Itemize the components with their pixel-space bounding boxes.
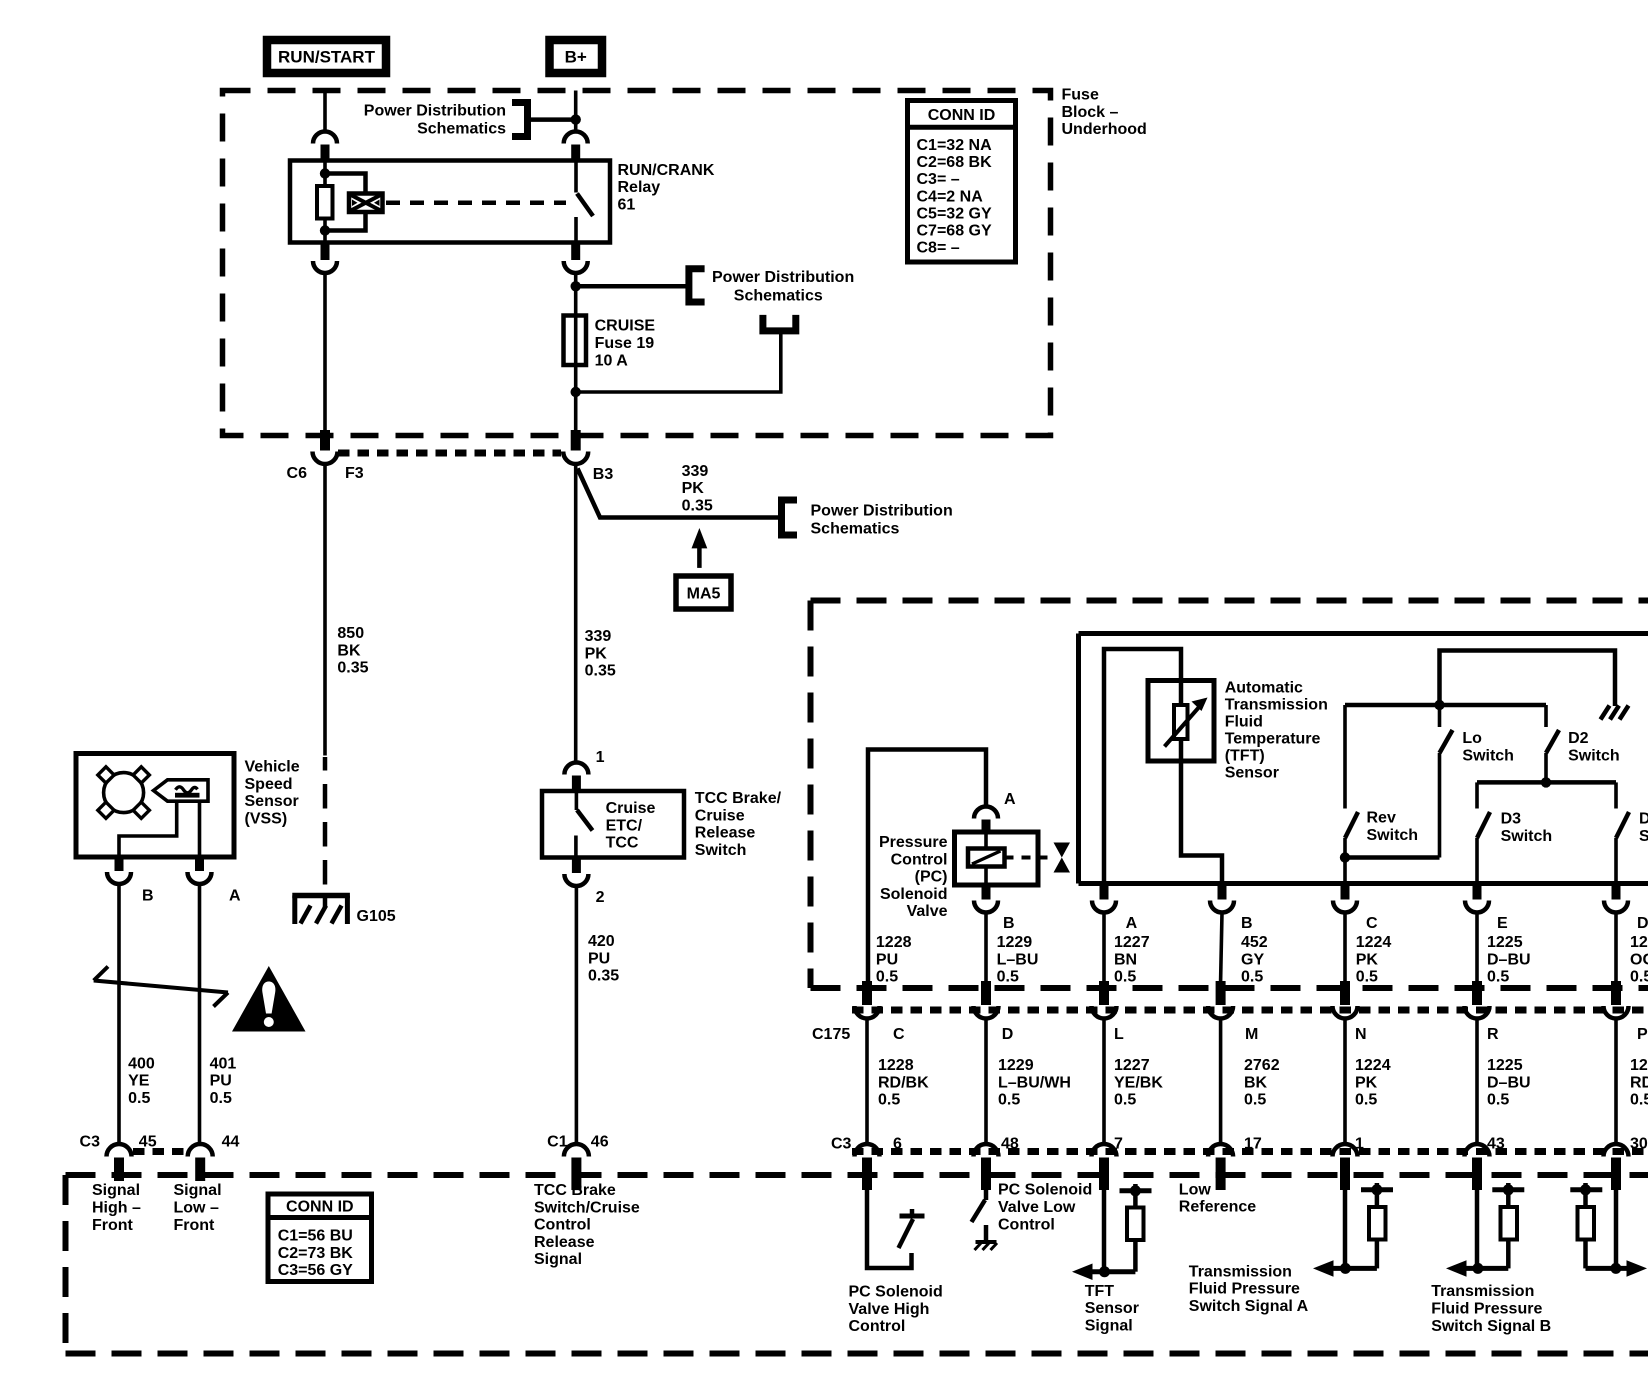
VSS pickup pointer icon — [154, 780, 209, 801]
label Power Distribution Schematics (B3 tap) — [811, 502, 953, 537]
svg-text:(VSS): (VSS) — [245, 811, 288, 828]
D4 switch — [1616, 782, 1629, 883]
svg-text:0.5: 0.5 — [1114, 1092, 1136, 1109]
Rev switch — [1345, 705, 1358, 884]
label PC Solenoid Valve Low Control — [998, 1182, 1092, 1234]
warning triangle — [232, 966, 306, 1032]
wire 1226 OG — [1614, 913, 1618, 981]
bracket power distribution (U return) — [763, 315, 796, 331]
relay coil branch lower node — [320, 225, 330, 235]
dotted connector line C175 top — [852, 1007, 1648, 1014]
wire 1224 PK — [1343, 913, 1347, 981]
C175 column P — [1604, 981, 1629, 1190]
svg-text:0.5: 0.5 — [1241, 969, 1263, 986]
svg-text:339: 339 — [682, 463, 709, 480]
svg-text:B+: B+ — [565, 48, 587, 67]
svg-text:0.5: 0.5 — [1244, 1092, 1266, 1109]
svg-text:PU: PU — [876, 951, 898, 968]
wire 400 YE — [117, 885, 121, 1145]
svg-text:30: 30 — [1630, 1136, 1648, 1153]
wire B+ feed — [574, 91, 578, 132]
connector cup trans pin A — [1092, 901, 1116, 913]
node ground rail junction — [1434, 700, 1444, 710]
svg-text:Front: Front — [92, 1217, 134, 1234]
svg-text:Sensor: Sensor — [1225, 764, 1279, 781]
wire 401 PU — [198, 885, 202, 1145]
label Pressure Control (PC) Solenoid Valve — [879, 834, 948, 920]
svg-text:Power Distribution: Power Distribution — [364, 102, 506, 119]
svg-text:2: 2 — [596, 889, 605, 906]
svg-text:Fluid Pressure: Fluid Pressure — [1431, 1301, 1542, 1318]
svg-text:TCC Brake/: TCC Brake/ — [695, 790, 782, 807]
dotted connector line C175 bottom — [852, 1148, 1648, 1155]
svg-text:L–BU/WH: L–BU/WH — [998, 1074, 1071, 1091]
D3 switch — [1477, 782, 1490, 883]
svg-text:GY: GY — [1241, 951, 1264, 968]
svg-text:46: 46 — [591, 1134, 609, 1151]
svg-text:1224: 1224 — [1356, 934, 1392, 951]
label 1226 OG 0.5 — [1630, 934, 1648, 986]
pin stub C3 pin 44 — [195, 1158, 205, 1182]
relay coil branch upper node — [320, 168, 330, 178]
VSS internal wire B — [119, 801, 177, 857]
svg-text:Signal: Signal — [1085, 1317, 1133, 1334]
svg-text:Low: Low — [1179, 1181, 1212, 1198]
svg-text:400: 400 — [128, 1055, 155, 1072]
pin stub trans pin B — [1218, 884, 1227, 900]
svg-text:TCC: TCC — [606, 835, 639, 852]
dotted connector line C6-B3 — [338, 450, 561, 457]
svg-text:PK: PK — [1355, 1074, 1378, 1091]
node below fuse junction — [571, 387, 581, 397]
svg-text:0.5: 0.5 — [1114, 969, 1136, 986]
pin stub VSS pin A — [195, 857, 204, 871]
svg-text:Valve: Valve — [907, 903, 948, 920]
label 1227 BN 0.5 — [1114, 934, 1150, 986]
svg-text:Speed: Speed — [245, 776, 293, 793]
svg-text:D: D — [1637, 915, 1648, 932]
svg-text:Switch: Switch — [1639, 828, 1648, 845]
svg-text:PU: PU — [210, 1073, 232, 1090]
TFP switch signal C input network (clipped) — [1570, 1183, 1647, 1277]
wire relay right output — [574, 274, 578, 432]
C175 column N — [1333, 981, 1358, 1190]
svg-text:0.5: 0.5 — [1630, 1092, 1648, 1109]
svg-text:44: 44 — [222, 1134, 240, 1151]
C175 column M — [1208, 981, 1233, 1190]
label 339 PK 0.35 (branch) — [682, 463, 713, 515]
label TCC Brake Switch/Cruise Control Release Signal — [534, 1182, 640, 1268]
connector cup trans pin E — [1465, 901, 1489, 913]
wire TFT sensor output — [1181, 739, 1222, 884]
svg-text:Automatic: Automatic — [1225, 680, 1303, 697]
svg-text:1228: 1228 — [876, 934, 912, 951]
svg-text:A: A — [229, 888, 241, 905]
svg-text:L: L — [1114, 1026, 1124, 1043]
svg-text:B3: B3 — [593, 466, 614, 483]
svg-text:D–BU: D–BU — [1487, 1074, 1531, 1091]
cruise switch lower contact — [574, 836, 578, 858]
svg-text:Fuse: Fuse — [1062, 87, 1099, 104]
connector cup C1 pin 46 — [564, 1144, 589, 1157]
svg-text:D2: D2 — [1568, 730, 1589, 747]
cruise switch fixed contact — [575, 791, 579, 810]
pin stub into relay (RUN/START side) — [321, 145, 330, 161]
power node B+ — [550, 40, 603, 73]
TFP switch signal A input network — [1313, 1183, 1393, 1277]
connector cup VSS pin B — [107, 872, 131, 884]
svg-text:(TFT): (TFT) — [1225, 747, 1265, 764]
svg-text:Low –: Low – — [174, 1200, 219, 1217]
wire switch top bus — [1345, 703, 1546, 708]
svg-text:C2=73 BK: C2=73 BK — [278, 1245, 354, 1262]
label Signal High - Front — [92, 1182, 141, 1234]
PC solenoid low control switch to ground — [972, 1190, 998, 1250]
cruise switch blade — [577, 810, 593, 831]
label Lo Switch — [1462, 730, 1514, 764]
svg-text:1227: 1227 — [1114, 934, 1150, 951]
svg-text:17: 17 — [1244, 1136, 1262, 1153]
pin stub trans pin E — [1473, 884, 1482, 900]
C175 column C — [855, 981, 880, 1190]
wire 1227 BN — [1102, 913, 1106, 981]
label 452 GY 0.5 — [1241, 934, 1268, 986]
table CONN ID (module) — [266, 1194, 372, 1282]
connector cup relay pin (RUN/START side) — [313, 132, 337, 144]
sensor box TFT — [1148, 681, 1214, 762]
label 1228 PU 0.5 — [876, 934, 912, 986]
wire tap to power distribution bracket — [528, 117, 576, 122]
sensor box VSS — [76, 754, 234, 858]
label CRUISE Fuse 19 10 A — [595, 318, 656, 370]
label TFT Sensor Signal — [1085, 1283, 1139, 1335]
wire tap to power distribution bracket (mid) — [576, 284, 689, 289]
svg-text:0.5: 0.5 — [1487, 969, 1509, 986]
connector cup trans pin B — [1210, 901, 1234, 913]
svg-text:RUN/START: RUN/START — [278, 48, 376, 67]
svg-text:C1=32 NA: C1=32 NA — [917, 137, 993, 154]
wire TFT bridge — [1104, 649, 1181, 884]
relay coil wire — [323, 161, 327, 243]
label Power Distribution Schematics (top) — [364, 102, 506, 137]
label D4 Switch — [1639, 811, 1648, 845]
svg-text:45: 45 — [139, 1134, 157, 1151]
svg-text:Pressure: Pressure — [879, 834, 948, 851]
svg-text:C3= –: C3= – — [917, 171, 960, 188]
svg-text:PC Solenoid: PC Solenoid — [849, 1284, 943, 1301]
svg-text:Switch Signal B: Switch Signal B — [1431, 1318, 1551, 1335]
svg-text:0.5: 0.5 — [998, 1092, 1020, 1109]
label 850 BK 0.35 — [337, 625, 368, 677]
svg-text:Relay: Relay — [618, 179, 661, 196]
svg-text:Control: Control — [849, 1318, 906, 1335]
svg-text:Signal: Signal — [534, 1251, 582, 1268]
pin stub through fuse block exit (B3) — [571, 430, 581, 451]
module dashed boundary (bottom) — [66, 1175, 1648, 1354]
pin stub below relay (left) — [321, 243, 330, 261]
label Fuse Block - Underhood — [1062, 87, 1147, 139]
svg-text:Signal: Signal — [174, 1182, 222, 1199]
PC solenoid element — [968, 849, 1005, 867]
wire 339 PK vertical run — [574, 464, 578, 762]
svg-text:Release: Release — [695, 825, 756, 842]
PC solenoid high control driver switch — [867, 1190, 925, 1268]
wire 850 BK dashed run to ground — [323, 757, 328, 893]
svg-text:0.35: 0.35 — [682, 497, 713, 514]
svg-text:C175: C175 — [812, 1026, 850, 1043]
svg-text:C6: C6 — [287, 465, 308, 482]
label Transmission Fluid Pressure Switch Signal A — [1189, 1263, 1309, 1315]
wire 452 GY — [1221, 913, 1222, 981]
label PC Solenoid Valve High Control — [849, 1284, 943, 1336]
PC solenoid wire through — [984, 832, 988, 885]
wire PC solenoid high feed — [868, 750, 986, 982]
connector cup C3 pin 44 — [188, 1144, 213, 1156]
connector cup cruise switch pin 2 — [564, 874, 588, 886]
wire 339 PK branch diagonal — [578, 469, 782, 518]
dashed valve linkage — [1005, 856, 1050, 860]
svg-text:0.5: 0.5 — [1487, 1092, 1509, 1109]
svg-text:Cruise: Cruise — [695, 807, 745, 824]
svg-text:YE: YE — [128, 1073, 150, 1090]
svg-text:CONN ID: CONN ID — [286, 1199, 354, 1216]
label 1226 RD/BK 0.5 — [1630, 1057, 1648, 1109]
connector cup PC solenoid pin A — [974, 807, 998, 819]
svg-text:0.35: 0.35 — [585, 663, 616, 680]
svg-text:BK: BK — [1244, 1074, 1268, 1091]
svg-text:0.5: 0.5 — [1356, 969, 1378, 986]
svg-text:Release: Release — [534, 1234, 595, 1251]
svg-text:Signal: Signal — [92, 1182, 140, 1199]
TFT sensor signal input network — [1072, 1184, 1152, 1280]
svg-text:PK: PK — [682, 480, 705, 497]
table CONN ID (fuse block) — [905, 101, 1018, 263]
svg-text:Solenoid: Solenoid — [880, 886, 948, 903]
svg-text:BN: BN — [1114, 951, 1137, 968]
relay coil element — [317, 186, 333, 219]
svg-text:D3: D3 — [1501, 811, 1522, 828]
svg-text:48: 48 — [1001, 1136, 1019, 1153]
label 2762 BK 0.5 — [1244, 1057, 1280, 1109]
svg-text:C5=32 GY: C5=32 GY — [917, 206, 992, 223]
pin stub trans pin A — [1100, 884, 1109, 900]
svg-text:Switch Signal A: Switch Signal A — [1189, 1298, 1309, 1315]
D2 switch — [1546, 705, 1559, 782]
svg-text:Control: Control — [998, 1216, 1055, 1233]
pin stub C1 pin 46 — [571, 1158, 581, 1191]
pin stub VSS pin B — [115, 857, 124, 871]
svg-text:C3: C3 — [831, 1136, 852, 1153]
fuse CRUISE Fuse 19 10A — [564, 316, 587, 366]
svg-text:B: B — [142, 888, 154, 905]
svg-text:C7=68 GY: C7=68 GY — [917, 223, 992, 240]
svg-text:7: 7 — [1114, 1136, 1123, 1153]
node Rev lower junction — [1340, 852, 1350, 862]
svg-text:Temperature: Temperature — [1225, 730, 1321, 747]
connector cup C3 pin 45 — [106, 1144, 131, 1157]
resistor TFT thermistor — [1174, 705, 1188, 739]
svg-text:D4: D4 — [1639, 811, 1648, 828]
svg-text:L–BU: L–BU — [997, 951, 1039, 968]
solenoid valve box PC — [955, 832, 1039, 885]
label TCC Brake/Cruise Release Switch — [695, 790, 782, 859]
wire 850 BK upper run — [323, 464, 327, 756]
label 1225 D-BU 0.5 — [1487, 934, 1531, 986]
svg-text:1226: 1226 — [1630, 1057, 1648, 1074]
svg-text:C2=68 BK: C2=68 BK — [917, 154, 993, 171]
label 1227 YE/BK 0.5 — [1114, 1057, 1163, 1109]
svg-text:N: N — [1355, 1026, 1367, 1043]
svg-text:6: 6 — [893, 1136, 902, 1153]
label 420 PU 0.35 — [588, 933, 619, 985]
svg-text:2762: 2762 — [1244, 1057, 1280, 1074]
C175 column L — [1092, 981, 1117, 1190]
svg-text:PC Solenoid: PC Solenoid — [998, 1182, 1092, 1199]
svg-text:1228: 1228 — [878, 1057, 914, 1074]
label 339 PK 0.35 (vertical) — [585, 628, 616, 680]
label Power Distribution Schematics (mid) — [712, 269, 854, 304]
svg-text:M: M — [1245, 1026, 1258, 1043]
svg-text:B: B — [1241, 915, 1253, 932]
svg-text:Fluid Pressure: Fluid Pressure — [1189, 1281, 1300, 1298]
svg-text:0.5: 0.5 — [876, 969, 898, 986]
label Signal Low - Front — [174, 1182, 222, 1234]
connector cup trans pin C — [1333, 901, 1357, 913]
svg-text:PK: PK — [585, 645, 608, 662]
C175 column R — [1465, 981, 1490, 1190]
svg-text:Schematics: Schematics — [734, 287, 823, 304]
pin stub trans pin C — [1341, 884, 1350, 900]
label 1229 L-BU/WH 0.5 — [998, 1057, 1071, 1109]
svg-text:Vehicle: Vehicle — [245, 759, 300, 776]
svg-text:0.35: 0.35 — [588, 968, 619, 985]
wire 1225 D-BU — [1475, 913, 1479, 981]
svg-text:1: 1 — [1355, 1136, 1364, 1153]
pin stub PC solenoid pin A — [982, 820, 991, 833]
arrow MA5 reference — [692, 528, 708, 568]
svg-text:0.5: 0.5 — [128, 1090, 150, 1107]
svg-text:(PC): (PC) — [915, 869, 948, 886]
connector cup below relay (left) — [313, 261, 337, 273]
label D2 Switch — [1568, 730, 1620, 764]
TFP switch signal B input network — [1446, 1183, 1524, 1277]
label Low Reference — [1179, 1181, 1256, 1215]
svg-text:Cruise: Cruise — [606, 800, 656, 817]
connector cup trans pin D — [1604, 901, 1628, 913]
svg-text:0.5: 0.5 — [1630, 969, 1648, 986]
svg-text:Transmission: Transmission — [1189, 1263, 1292, 1280]
node fused feed junction — [571, 281, 581, 291]
svg-text:YE/BK: YE/BK — [1114, 1074, 1163, 1091]
relay switch fixed contact — [574, 161, 578, 193]
svg-text:1226: 1226 — [1630, 934, 1648, 951]
svg-text:C8= –: C8= – — [917, 240, 960, 257]
svg-text:E: E — [1497, 915, 1508, 932]
svg-text:Fluid: Fluid — [1225, 713, 1263, 730]
svg-text:Transmission: Transmission — [1431, 1283, 1534, 1300]
svg-text:Schematics: Schematics — [811, 521, 900, 538]
svg-text:1229: 1229 — [997, 934, 1033, 951]
VSS rotor icon — [98, 767, 150, 819]
svg-text:TCC Brake: TCC Brake — [534, 1182, 616, 1199]
box MA5 — [676, 576, 731, 609]
svg-text:0.5: 0.5 — [210, 1090, 232, 1107]
svg-text:1229: 1229 — [998, 1057, 1034, 1074]
svg-text:0.5: 0.5 — [997, 969, 1019, 986]
svg-text:Front: Front — [174, 1217, 216, 1234]
svg-text:MA5: MA5 — [687, 586, 721, 603]
svg-text:D: D — [1002, 1026, 1014, 1043]
label 1228 RD/BK 0.5 — [878, 1057, 929, 1109]
Lo switch — [1440, 705, 1453, 858]
svg-text:TFT: TFT — [1085, 1283, 1115, 1300]
svg-text:CONN ID: CONN ID — [928, 107, 996, 124]
svg-text:Power Distribution: Power Distribution — [811, 502, 953, 519]
svg-text:C1=56 BU: C1=56 BU — [278, 1228, 353, 1245]
svg-text:Switch: Switch — [1462, 747, 1514, 764]
connector cup C6 — [313, 452, 338, 465]
svg-text:P: P — [1637, 1026, 1648, 1043]
svg-text:420: 420 — [588, 933, 615, 950]
label 401 PU 0.5 — [210, 1055, 237, 1107]
pin stub trans pin D — [1612, 884, 1621, 900]
svg-text:Switch/Cruise: Switch/Cruise — [534, 1199, 640, 1216]
connector cup PC solenoid pin B — [974, 901, 998, 913]
wire switch ground rail — [1440, 651, 1616, 707]
node D2 bus junction — [1541, 777, 1551, 787]
wire relay left output — [323, 274, 327, 432]
relay switch blade — [577, 194, 593, 217]
pin stub cruise switch pin 2 — [572, 858, 581, 874]
svg-text:C: C — [893, 1026, 905, 1043]
power node RUN/START — [267, 40, 386, 73]
svg-text:Switch: Switch — [1568, 747, 1620, 764]
svg-text:G105: G105 — [357, 908, 396, 925]
wire switch mid bus — [1477, 780, 1616, 785]
connector cup relay pin (B+ side) — [564, 132, 588, 144]
label Automatic Transmission Fluid Temperature (TFT) Sensor — [1225, 680, 1328, 782]
svg-text:Switch: Switch — [695, 842, 747, 859]
VSS internal wire A — [198, 801, 202, 857]
svg-text:High –: High – — [92, 1200, 141, 1217]
svg-text:Sensor: Sensor — [245, 793, 299, 810]
svg-text:0.5: 0.5 — [1355, 1092, 1377, 1109]
svg-text:1225: 1225 — [1487, 1057, 1523, 1074]
transmission internal solid box — [1079, 634, 1648, 884]
label 1224 PK 0.5 (lower) — [1355, 1057, 1391, 1109]
relay switch lower contact — [574, 217, 578, 243]
dotted connector line 45-44 — [133, 1148, 187, 1155]
wire below-fuse tap — [576, 331, 781, 392]
bracket power distribution (mid) — [689, 269, 705, 302]
fuse block underhood dashed boundary — [223, 91, 1051, 436]
svg-text:CRUISE: CRUISE — [595, 318, 656, 335]
label 1224 PK 0.5 — [1356, 934, 1392, 986]
svg-text:Switch: Switch — [1501, 828, 1553, 845]
svg-text:Valve Low: Valve Low — [998, 1199, 1076, 1216]
svg-text:10 A: 10 A — [595, 352, 629, 369]
svg-text:Rev: Rev — [1367, 810, 1396, 827]
connector cup B3 — [563, 452, 588, 465]
svg-text:1: 1 — [596, 749, 605, 766]
pin stub C3 pin 45 — [114, 1158, 124, 1182]
svg-text:OG: OG — [1630, 951, 1648, 968]
label 1229 L-BU 0.5 — [997, 934, 1039, 986]
wire coil bypass branch — [325, 174, 366, 231]
node B+ junction at power distribution tap — [571, 114, 581, 124]
svg-text:0.5: 0.5 — [878, 1092, 900, 1109]
svg-text:Lo: Lo — [1462, 730, 1482, 747]
